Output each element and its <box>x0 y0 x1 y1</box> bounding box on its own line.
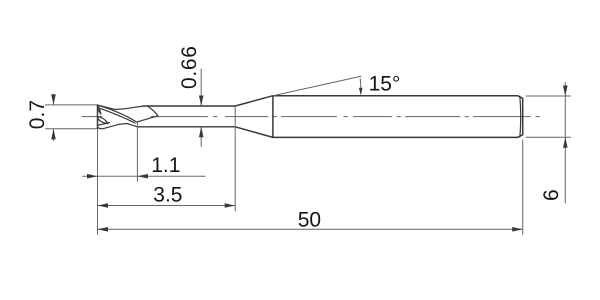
bottom end tooth leaf <box>98 117 108 124</box>
dia 6 arrows (outside) <box>563 86 568 148</box>
gash sliver below tip corner <box>98 106 101 115</box>
dia 0.7 dimension line <box>53 96 55 141</box>
dia 0.66 arrows <box>199 96 204 138</box>
neck bottom line <box>138 126 236 128</box>
svg-text:50: 50 <box>298 208 321 231</box>
dia 0.7 extension lines <box>46 105 98 129</box>
flute helix edge B <box>99 108 136 123</box>
tip face <box>97 105 99 129</box>
15 degree arrow <box>359 79 362 94</box>
shank left edge <box>272 96 274 138</box>
chamfer edge <box>519 96 522 137</box>
flute helix edge A <box>98 105 137 122</box>
svg-text:15°: 15° <box>369 73 401 96</box>
centerline <box>82 116 540 118</box>
dim 3.5 arrows (inside) <box>98 203 236 208</box>
shank bottom <box>273 136 518 138</box>
flute runout upper right edge <box>147 106 158 116</box>
extension line taper start down <box>234 106 236 211</box>
dim 50 arrows (inside) <box>98 227 523 232</box>
extension line flute end down <box>136 122 138 181</box>
shank right end chamfer <box>518 96 523 138</box>
dim 3.5 line <box>98 205 236 207</box>
shank top <box>273 95 518 97</box>
dim 50 line <box>98 228 523 230</box>
taper bottom <box>235 127 273 138</box>
neck top line <box>143 105 235 107</box>
dia 6 extension lines <box>526 96 571 137</box>
flute runout lower edge <box>137 116 158 122</box>
extension line tip face down <box>97 129 99 235</box>
taper top <box>235 96 273 106</box>
dim 1.1 arrows (outside) <box>87 174 148 179</box>
dia 0.7 arrows <box>51 94 56 139</box>
flute top outline <box>98 105 143 109</box>
dim 1.1 line <box>83 175 205 177</box>
cutter bottom outline <box>98 123 138 129</box>
taper angle extension line <box>273 76 361 96</box>
dia 0.66 dimension line <box>200 69 202 147</box>
extension line shank end down <box>522 140 524 235</box>
svg-text:6: 6 <box>540 189 563 201</box>
svg-text:3.5: 3.5 <box>153 183 182 206</box>
dia 6 dimension line <box>564 83 566 204</box>
svg-text:0.7: 0.7 <box>26 100 49 129</box>
svg-text:1.1: 1.1 <box>151 154 180 177</box>
svg-text:0.66: 0.66 <box>178 45 201 89</box>
